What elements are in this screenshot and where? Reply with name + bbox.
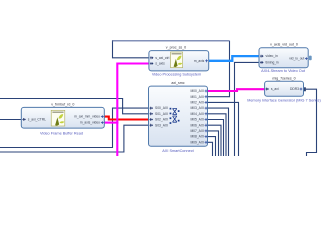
svg-text:M00_AXI: M00_AXI bbox=[190, 89, 204, 93]
svg-text:S02_AXI: S02_AXI bbox=[155, 118, 168, 122]
svg-text:m_axis_video: m_axis_video bbox=[80, 121, 100, 125]
block mig_7series_0 bbox=[247, 77, 321, 103]
pin m_axis bbox=[205, 59, 208, 62]
pin S01_AXI bbox=[150, 112, 154, 115]
wire net DDR3 to edge bbox=[306, 89, 317, 156]
svg-text:axi_smc: axi_smc bbox=[171, 81, 184, 85]
wire net M03_AXI down bbox=[208, 108, 229, 156]
pin M01_AXI bbox=[205, 95, 208, 98]
svg-text:Memory Interface Generator (MI: Memory Interface Generator (MIG 7 Series… bbox=[247, 98, 321, 102]
wire net to v_frmbuf_rd s_axi_CTRL bbox=[0, 119, 21, 121]
wire net M07_AXI down bbox=[208, 131, 219, 156]
pin m_axi_mm_video bbox=[101, 115, 104, 118]
pin vid_io_out bbox=[305, 57, 308, 60]
pin M07_AXI bbox=[205, 130, 208, 133]
block axi_smc bbox=[149, 81, 208, 153]
svg-text:v_frmbuf_rd_0: v_frmbuf_rd_0 bbox=[51, 102, 74, 106]
wire net to v_axis_vid_out timing_in bbox=[235, 62, 260, 156]
svg-text:M01_AXI: M01_AXI bbox=[190, 95, 204, 99]
external port DDR3 bbox=[304, 87, 306, 91]
wire net M06_AXI down bbox=[208, 125, 222, 156]
pin S00_AXI bbox=[150, 107, 154, 110]
pin M09_AXI bbox=[205, 141, 208, 144]
svg-text:S00_AXI: S00_AXI bbox=[155, 106, 168, 110]
wire net M01_AXI to v_proc_ss s_axi_ctrl (rectangle route) bbox=[112, 40, 229, 96]
svg-text:S03_AXI: S03_AXI bbox=[155, 123, 168, 127]
svg-text:M02_AXI: M02_AXI bbox=[190, 101, 204, 105]
wire net to S01_AXI (from top-left) bbox=[0, 99, 149, 114]
wire net to S03_AXI (from bottom long wire) bbox=[0, 125, 149, 152]
pin s_axi_CTRL bbox=[22, 118, 26, 121]
pin s_axis bbox=[150, 62, 154, 65]
wire net M05_AXI down bbox=[208, 120, 224, 157]
svg-text:vid_io_out: vid_io_out bbox=[289, 57, 304, 61]
wire net M08_AXI down bbox=[208, 137, 216, 156]
pin s_axi bbox=[265, 88, 269, 91]
wire net M04_AXI down bbox=[208, 114, 227, 156]
pin video_in bbox=[260, 55, 264, 58]
svg-text:video_in: video_in bbox=[266, 54, 278, 58]
svg-text:AXI SmartConnect: AXI SmartConnect bbox=[162, 149, 194, 153]
wire net m_axis_video to v_proc_ss s_axis (magenta) bbox=[104, 64, 149, 157]
icon v_proc_ss bbox=[171, 52, 183, 68]
svg-text:M04_AXI: M04_AXI bbox=[190, 112, 204, 116]
pin DDR3 bbox=[300, 88, 303, 91]
svg-text:M08_AXI: M08_AXI bbox=[190, 135, 204, 139]
external port vid_io_out bbox=[309, 56, 312, 61]
svg-text:mig_7series_0: mig_7series_0 bbox=[272, 77, 295, 81]
pin M05_AXI bbox=[205, 118, 208, 121]
pin M08_AXI bbox=[205, 135, 208, 138]
pin M02_AXI bbox=[205, 101, 208, 104]
svg-text:M06_AXI: M06_AXI bbox=[190, 123, 204, 127]
svg-text:m_axis: m_axis bbox=[194, 59, 205, 63]
svg-text:v_proc_ss_0: v_proc_ss_0 bbox=[166, 45, 186, 49]
svg-text:v_axis_vid_out_0: v_axis_vid_out_0 bbox=[270, 43, 298, 47]
svg-text:Video Frame Buffer Read: Video Frame Buffer Read bbox=[40, 131, 83, 135]
pin M00_AXI bbox=[205, 90, 208, 93]
wire net to S00_AXI (from bottom-left) bbox=[0, 108, 149, 147]
pin timing_in bbox=[260, 61, 264, 64]
wire net M00_AXI to mig s_axi (magenta) bbox=[208, 89, 266, 91]
block v_axis_vid_out_0 bbox=[259, 43, 308, 73]
svg-text:s_axi_ctrl: s_axi_ctrl bbox=[155, 56, 169, 60]
block v_proc_ss_0 bbox=[149, 45, 209, 76]
block v_frmbuf_rd_0 bbox=[21, 102, 104, 135]
svg-text:AXI4-Stream to Video Out: AXI4-Stream to Video Out bbox=[261, 69, 306, 73]
pin s_axi_ctrl bbox=[150, 56, 154, 59]
wire net m_axi_mm_video to S02_AXI (red) bbox=[104, 117, 148, 120]
wire net v_proc_ss m_axis to video_in (blue) bbox=[209, 56, 259, 61]
pin S02_AXI bbox=[150, 118, 154, 121]
wire net M02_AXI down bbox=[208, 102, 239, 156]
svg-text:M07_AXI: M07_AXI bbox=[190, 129, 204, 133]
icon axi_smc crossbar bbox=[170, 108, 180, 124]
svg-text:M05_AXI: M05_AXI bbox=[190, 118, 204, 122]
pin M06_AXI bbox=[205, 124, 208, 127]
svg-text:M03_AXI: M03_AXI bbox=[190, 106, 204, 110]
svg-text:m_axi_mm_video: m_axi_mm_video bbox=[74, 115, 100, 119]
svg-text:S01_AXI: S01_AXI bbox=[155, 112, 168, 116]
svg-text:DDR3: DDR3 bbox=[290, 87, 299, 91]
pin M04_AXI bbox=[205, 112, 208, 115]
svg-text:s_axi: s_axi bbox=[271, 87, 279, 91]
wire net M09_AXI to bottom long wire bbox=[208, 142, 213, 156]
svg-text:timing_in: timing_in bbox=[266, 61, 279, 65]
svg-text:Video Processing Subsystem: Video Processing Subsystem bbox=[152, 72, 201, 76]
svg-text:s_axis: s_axis bbox=[155, 62, 165, 66]
icon v_frmbuf_rd bbox=[51, 110, 65, 126]
svg-text:s_axi_CTRL: s_axi_CTRL bbox=[28, 118, 46, 122]
pin M03_AXI bbox=[205, 107, 208, 110]
svg-text:M09_AXI: M09_AXI bbox=[190, 140, 204, 144]
pin S03_AXI bbox=[150, 124, 154, 127]
pin m_axis_video bbox=[101, 121, 104, 124]
